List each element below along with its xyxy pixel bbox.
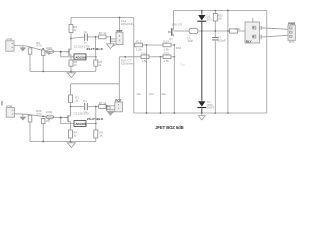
resistor R27 (bottom, output series) [99,101,107,109]
wire relay to PWR pin2 [261,35,288,37]
ground (top output) [107,44,115,49]
svg-text:2SJ74BLK: 2SJ74BLK [87,47,104,51]
wire R27 to output ground [106,107,110,111]
wire row2 to lower channel feed x=119.3 [118,57,120,102]
ground (bottom channel main) [67,142,75,148]
svg-text:10: 10 [73,134,77,138]
wire R11 to relay box [238,30,246,32]
svg-text:1.5k: 1.5k [164,59,170,63]
wire node C feedback vertical (top) [95,37,97,60]
edge mark left (scan artifact) [1,101,3,105]
wire rail drop x=227.9 [227,11,229,114]
transistor Q1 2SK170 (top channel JFET) [67,43,71,60]
wire R24 to ground bus [69,138,71,142]
resistor R24 (bottom, source) [68,130,77,138]
wire ground bus (horizontal) [134,112,267,114]
node C2 (bottom) [95,123,97,125]
svg-text:1u: 1u [84,41,88,45]
wire R5 bottom to ground bus [95,66,97,71]
svg-text:10R: 10R [188,39,193,43]
svg-text:1u: 1u [83,110,87,114]
svg-text:10u: 10u [161,92,166,96]
wire row2 right end [171,56,174,58]
wire relay to PWR pin1 [261,28,288,30]
svg-text:10u: 10u [149,92,154,96]
node D2 (bottom drain / cap tap) [70,106,72,108]
svg-text:4.7k: 4.7k [36,112,42,116]
inductor L1 ferrite bead (supply) [188,28,199,43]
wire VR1 to node C [86,56,96,58]
ground (input jack, bottom) [19,114,26,120]
node A2 (bottom gate divider) [42,115,44,117]
trimmer VR1 ADJ 100 (top) [74,54,87,60]
resistor R14 (row2 left) [141,52,149,64]
svg-text:1k: 1k [73,28,77,32]
svg-text:MTA: MTA [289,40,295,44]
wire C4 to node G2 [88,106,99,108]
capacitor C7 (supply filter) [212,36,226,43]
node supply mid [214,30,216,32]
pot P1 (top level pot box) [116,29,123,45]
zener D2 (lower) [197,100,214,109]
label BLK CT (row2) [121,58,134,65]
svg-text:100k: 100k [46,110,53,114]
node row1-mid [146,44,148,46]
wire P2 to ground diag [111,112,115,114]
wire rail drop x=133.8 [133,18,135,114]
node row2 left [124,56,126,58]
connector J1 LINE input (top channel) [6,37,14,51]
capacitor C1 (top output coupling) [84,30,88,45]
resistor R13 (row1 right) [163,40,171,52]
svg-text:C2 2SK170/: C2 2SK170/ [74,112,90,116]
pins relay right (cap bars) [260,26,261,40]
capacitor C1a label [121,19,134,26]
header pin bar (top output) [110,36,112,43]
svg-text:C1: C1 [84,30,88,34]
wire node B down to trimmer row [61,52,74,57]
transistor Q3 2SK170 (bottom channel JFET) [66,115,71,130]
wires P2 to output header (bottom) [107,105,115,107]
wire node B2 down to trimmer row [61,118,74,124]
svg-text:100uF: 100uF [218,39,226,43]
wire R4 to ground bus [70,66,72,71]
node D (top drain / cap tap) [70,38,72,40]
wire bead to supply node [179,30,189,32]
wire VR2 to node C2 [86,123,96,125]
wire supply rail (bottom channel) [71,83,119,85]
wire R7 to output ground [106,37,111,44]
resistor R25 (bottom, feedback to ground) [94,130,104,138]
wire R10 down [214,21,216,37]
svg-text:1k: 1k [99,134,103,138]
connector J2 LINE input (bottom channel) [6,104,15,117]
svg-text:1500ohm: 1500ohm [121,61,134,65]
svg-text:JFET BOZ 5dB: JFET BOZ 5dB [155,125,183,130]
ground (input jack, top) [19,46,26,52]
svg-text:ADJ100: ADJ100 [75,56,86,60]
node row2 mid [160,56,162,58]
wires P1 to output header (top) [111,38,116,40]
wire row1 right end [171,44,174,46]
nodes on bottom ground bus [42,141,44,143]
transistor Q4 (bottom, input JFET blob) [46,115,54,120]
node top rail / zener [201,10,203,12]
wire top rail left segment (top channel supply) [71,17,134,19]
resistor R6 4.7k (top input shunt) [28,48,32,54]
svg-text:2SK170: 2SK170 [172,23,183,27]
svg-text:1k: 1k [98,63,102,67]
svg-text:R16: R16 [176,46,182,50]
node G (top output node) [95,36,97,38]
wire right rail drop x=266.8 [266,11,268,114]
relay U1 (power box) [245,18,260,44]
ground bus wire (bottom channel) [30,141,96,143]
node top rail x=227.9 [227,10,229,12]
wire zener rail (dark vertical) [201,11,203,15]
resistor R4 (top, source) [69,60,78,67]
resistor R26 4.7k (bottom input shunt) [28,115,32,122]
svg-text:R11: R11 [236,27,241,31]
pot P2 (bottom level pot box) [115,99,123,112]
wire Q7 drain drop [173,11,175,28]
resistor R11 (supply series) [230,29,238,33]
wire R2 to ground bus [42,55,44,71]
resistor R3 (top, drain load) [69,18,77,33]
svg-text:9V1: 9V1 [207,18,213,22]
resistor R22 1M (bottom, vertical below node) [42,118,51,123]
svg-text:4.7k: 4.7k [36,44,42,48]
capacitor C4 (bottom output coupling) [83,99,87,114]
wire C1 to node G [88,36,99,38]
wire divider drop x=146.5 [146,45,148,113]
wire output coupling (bottom) [71,106,84,108]
wire row2 mid [149,56,163,58]
wire supply top rail [174,10,267,12]
resistor R5 (top, feedback to ground) [94,60,103,67]
zener D1 (upper) [197,15,212,22]
node B (top) [60,51,62,53]
svg-text:1M: 1M [218,17,223,21]
nodes on ground bus (top) [42,71,44,73]
wire top rail tap to level pot (top) [119,18,121,33]
ground (main star below bus) [198,113,205,120]
svg-text:2W07: 2W07 [207,106,215,110]
wire divider drop x=174.3 [173,45,175,113]
wire J2 to Q3 gate (slight slope) [14,114,68,118]
wire R22 to ground bus [42,124,44,142]
ground bus wire (top channel) [30,70,96,72]
wire R26 down to ground bus [29,122,31,142]
node A (top gate divider) [42,48,44,50]
svg-text:Q7: Q7 [169,37,173,41]
ground (top channel main) [67,71,75,77]
node row1 right [173,44,175,46]
svg-text:10u: 10u [136,92,141,96]
svg-text:100uF16V: 100uF16V [121,22,134,26]
transistor Q2 (top, input JFET blob) [46,50,54,55]
svg-text:ADJ100: ADJ100 [75,122,86,126]
wire output coupling (top) [71,37,84,38]
resistor R15 (row2 right) [163,52,171,64]
node H on top rail [119,17,121,19]
transistor Q7 2SK170 (supply regulator JFET) [168,23,182,42]
svg-text:RLY: RLY [246,40,252,44]
wire J1 to Q1 gate (slopes down) [14,46,69,52]
wire row1 [133,44,136,46]
node B2 (bottom) [60,117,62,119]
svg-text:C4: C4 [83,99,87,103]
nodes on ground bus [146,112,148,114]
node top rail R10 [214,10,216,12]
value label 4.7k (top) [36,41,42,48]
resistor R23 (bottom drain load) [69,84,80,103]
node supply/zener [201,30,203,32]
value label 4.7k (bottom) [36,109,42,116]
resistor R2 1M (top, vertical below node A) [42,50,51,55]
wire row2 [119,56,141,58]
resistor R12 (row1 left) [135,40,143,52]
header pin bar (bottom output) [106,105,108,111]
resistor R7 (top, output series) [99,31,107,39]
wire divider drop x=160.5 [160,57,162,113]
svg-text:10: 10 [74,63,78,67]
connector J3 PWR [288,22,296,44]
svg-text:Cxx: Cxx [180,63,185,67]
wire R3 to Q1 drain [70,33,72,44]
wire node C2 feedback vertical (bottom) [95,107,97,131]
node C (top) [95,56,97,58]
wire C7 to ground bus [214,40,216,113]
node G2 (bottom output node) [95,106,97,108]
wire R25 bottom to ground bus [95,138,97,142]
ground (bottom output) [106,111,114,116]
node row2 right [173,56,175,58]
trimmer VR2 ADJ 100 (bottom) [74,121,87,127]
wire R6 down to ground bus [29,54,31,71]
resistor R10 (from top rail) [213,11,223,22]
wire R23 to Q3 drain [70,103,72,116]
wire P1 to ground diag [112,45,116,47]
